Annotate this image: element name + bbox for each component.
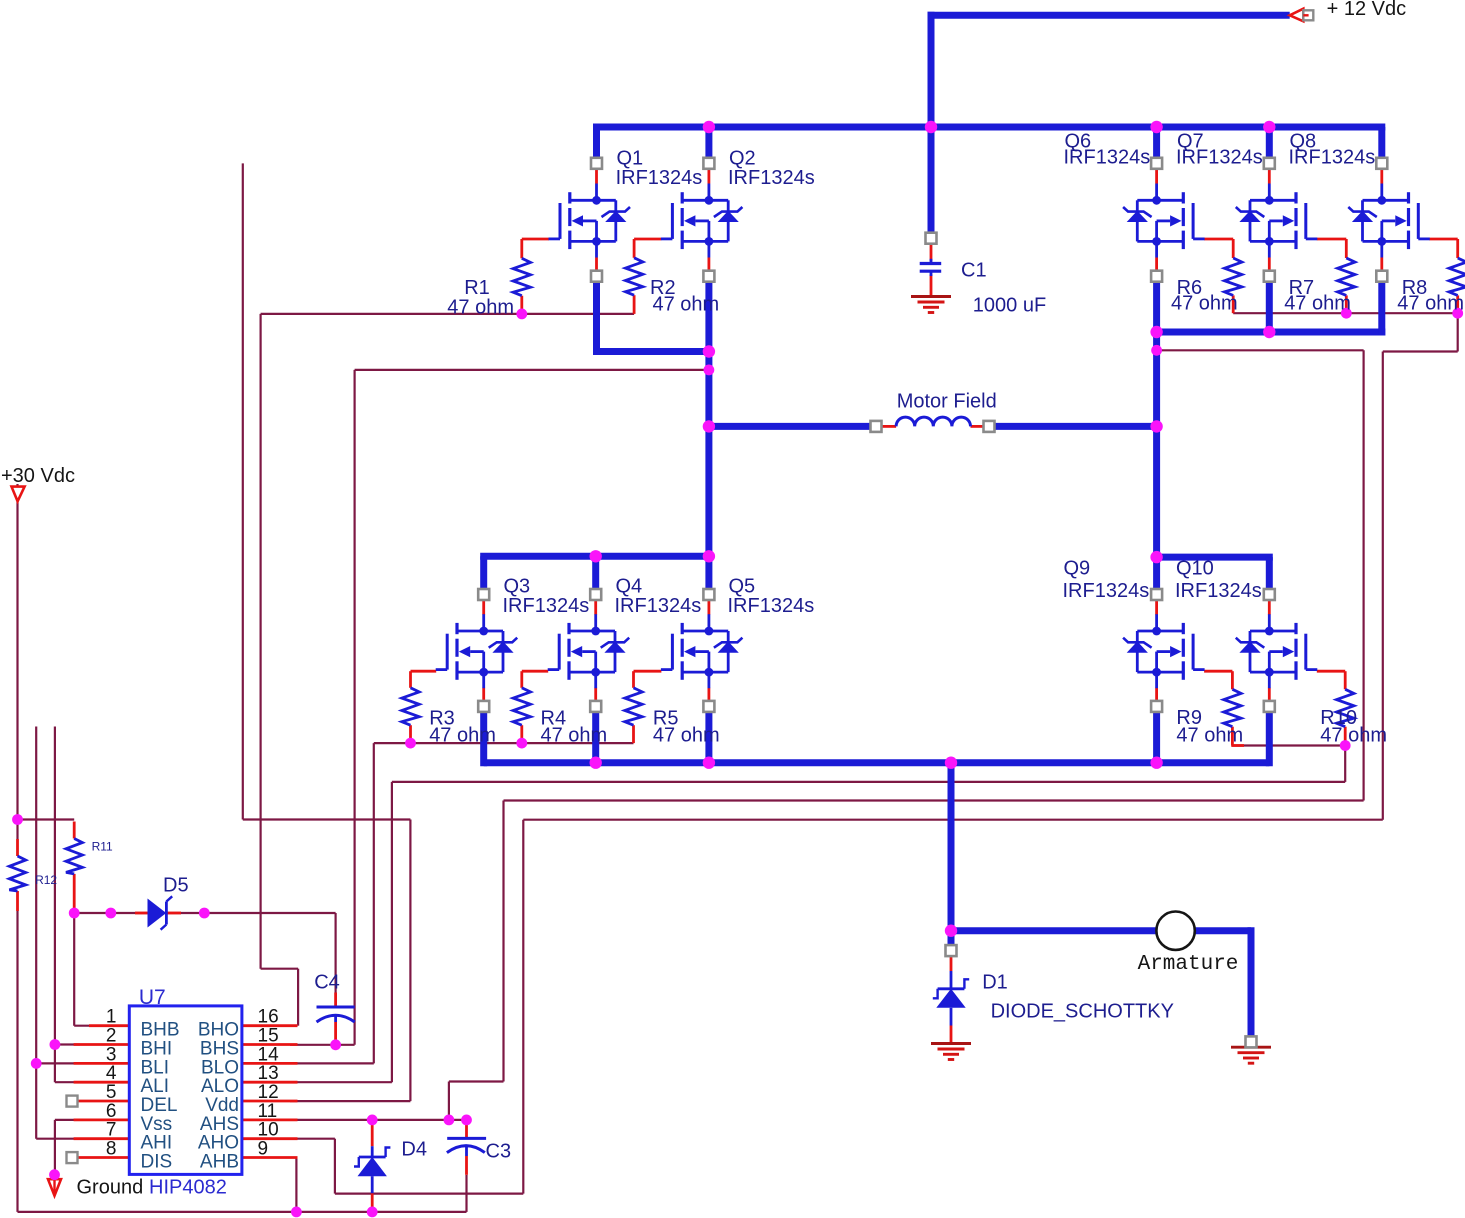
- wire net Vss pin6 to ground: [55, 1119, 80, 1121]
- resistor R9: [1224, 689, 1241, 726]
- svg-text:47 ohm: 47 ohm: [653, 294, 720, 316]
- svg-text:47 ohm: 47 ohm: [447, 297, 514, 319]
- lead Q1 gate to R1: [522, 238, 549, 241]
- svg-text:+30 Vdc: +30 Vdc: [1, 465, 75, 487]
- inductor Motor Field: [896, 417, 970, 426]
- wire high-side drain rail: [593, 124, 1385, 131]
- transistor Q1: [595, 184, 598, 201]
- wire net BHI pin2 pin4 input stub: [54, 727, 56, 1083]
- lead drains bottom bank: [482, 600, 485, 615]
- svg-text:IRF1324s: IRF1324s: [1176, 147, 1263, 169]
- svg-text:47 ohm: 47 ohm: [1284, 293, 1351, 315]
- lead C3 top: [465, 1120, 468, 1139]
- svg-text:IRF1324s: IRF1324s: [1175, 580, 1262, 602]
- svg-text:C1: C1: [961, 260, 987, 282]
- resistor R4: [513, 688, 530, 725]
- wire net BHS pin15 to left bridge midpoint: [355, 369, 709, 371]
- resistor R12: [9, 856, 25, 891]
- ground C1: [911, 295, 951, 298]
- wire +12Vdc feed down to C1: [928, 12, 935, 233]
- lead C1 bottom to ground: [930, 275, 933, 297]
- wire armature to ground: [1248, 927, 1255, 1036]
- lead R10 bottom: [1344, 727, 1347, 746]
- svg-text:47 ohm: 47 ohm: [541, 725, 608, 747]
- lead Q7 gate to R7: [1317, 238, 1347, 241]
- capacitor C1: [920, 262, 942, 265]
- lead D4 top: [371, 1120, 374, 1146]
- wire left bridge midpoint vertical: [705, 282, 712, 589]
- svg-text:Q10: Q10: [1176, 558, 1214, 580]
- svg-text:IRF1324s: IRF1324s: [728, 167, 815, 189]
- wire net BHB D5 cathode line to pin1 and C4: [74, 912, 335, 914]
- svg-text:8: 8: [106, 1139, 117, 1160]
- svg-text:Motor Field: Motor Field: [897, 391, 997, 413]
- wire Q3 source stub: [480, 712, 487, 766]
- transistor Q7: [1268, 184, 1271, 201]
- lead R5 bottom: [632, 725, 635, 743]
- wire D1 branch stub: [948, 931, 955, 945]
- wire net BHO pin16 to R1 R2 gates: [261, 313, 634, 315]
- svg-text:47 ohm: 47 ohm: [1171, 293, 1238, 315]
- motor Armature: [1156, 912, 1194, 950]
- lead R11 bottom: [73, 874, 76, 913]
- wire motor armature branch down: [948, 763, 955, 935]
- lead R11 top: [73, 822, 76, 839]
- wire +30Vdc rail to R11 R12: [18, 818, 75, 820]
- lead C4 bottom: [334, 1022, 337, 1045]
- lead drains top bank: [595, 169, 598, 184]
- lead motor field right: [971, 425, 984, 428]
- U7 right pin leads 16-9: [242, 1024, 298, 1027]
- wire +12Vdc top rail: [928, 12, 1290, 19]
- wire net BLO pin14 to R3 R4 R5 gates: [374, 742, 634, 744]
- svg-text:Armature: Armature: [1138, 953, 1239, 976]
- wire Q5 source stub: [705, 712, 712, 763]
- lead R8 bottom: [1456, 295, 1459, 313]
- lead Q4 gate to R4: [522, 670, 548, 673]
- wire Q7 drain stub: [1266, 127, 1273, 158]
- lead Q3 gate to R3: [411, 670, 437, 673]
- capacitor C4: [317, 1006, 355, 1009]
- lead Q10 gate to R10: [1317, 670, 1345, 673]
- svg-text:IRF1324s: IRF1324s: [615, 595, 702, 617]
- lead Q6 gate to R6: [1204, 238, 1233, 241]
- transistor Q10: [1268, 614, 1271, 631]
- transistor Q2: [708, 184, 711, 201]
- diode D1 DIODE_SCHOTTKY: [950, 971, 953, 989]
- lead D1 top: [950, 956, 953, 971]
- svg-text:47 ohm: 47 ohm: [653, 725, 720, 747]
- transistor Q6: [1155, 184, 1158, 201]
- capacitor C3: [447, 1137, 486, 1140]
- pad DIS pin8: [67, 1152, 78, 1163]
- resistor R3: [402, 688, 419, 725]
- wire Q1 drain stub: [593, 127, 600, 158]
- lead R6 bottom: [1232, 295, 1235, 313]
- transistor Q9: [1155, 614, 1158, 631]
- svg-text:AHB: AHB: [200, 1152, 239, 1173]
- wire Q6-Q8 source rail: [1157, 329, 1386, 336]
- svg-text:47 ohm: 47 ohm: [1320, 725, 1387, 747]
- pad C1: [926, 233, 937, 244]
- diode D4: [371, 1146, 374, 1157]
- wire Q10 source stub: [1266, 712, 1273, 766]
- svg-text:D4: D4: [401, 1139, 427, 1161]
- transistor Q5: [708, 614, 711, 631]
- svg-text:+ 12 Vdc: + 12 Vdc: [1327, 0, 1407, 20]
- svg-text:IRF1324s: IRF1324s: [503, 595, 590, 617]
- wire Q8 drain stub: [1378, 127, 1385, 158]
- svg-text:C3: C3: [486, 1141, 512, 1163]
- lead R9 bottom: [1231, 727, 1234, 746]
- lead R1 bottom: [520, 296, 523, 314]
- diode D5: [148, 899, 167, 928]
- wire low-side source rail: [484, 759, 1270, 766]
- svg-text:Ground: Ground: [77, 1177, 144, 1199]
- wire Q6 drain stub: [1153, 127, 1160, 158]
- svg-text:R12: R12: [35, 873, 57, 887]
- lead sources top bank: [595, 258, 598, 271]
- wire net AHB bottom bus R12 pin9 D4 C3: [16, 484, 18, 839]
- svg-text:1000 uF: 1000 uF: [973, 295, 1046, 317]
- transistor Q3: [482, 614, 485, 631]
- wire right bridge midpoint vertical: [1153, 282, 1160, 589]
- lead motor field left: [882, 425, 897, 428]
- ground arrow Vss: [53, 1175, 55, 1192]
- terminal +12 Vdc: [1290, 9, 1304, 22]
- lead Q9 gate to R9: [1204, 670, 1232, 673]
- junction dots signal wires: [12, 814, 23, 825]
- lead R12 bottom: [16, 891, 19, 911]
- lead R4 bottom: [520, 725, 523, 743]
- svg-text:HIP4082: HIP4082: [149, 1177, 227, 1199]
- svg-text:D1: D1: [982, 972, 1008, 994]
- svg-text:IRF1324s: IRF1324s: [728, 595, 815, 617]
- svg-text:9: 9: [258, 1139, 269, 1160]
- svg-text:IRF1324s: IRF1324s: [1063, 580, 1150, 602]
- wire motor field left branch: [709, 423, 871, 430]
- wire armature horizontal: [951, 927, 1251, 934]
- wire net ALO pin13 to R9 R10 gates: [1232, 744, 1345, 746]
- wire lower-left drain rail: [480, 553, 709, 560]
- transistor Q4: [594, 614, 597, 631]
- resistor R11: [66, 839, 82, 874]
- wire Q9 source stub: [1153, 712, 1160, 763]
- pad D1: [946, 945, 957, 956]
- lead Q2 gate to R2: [634, 238, 661, 241]
- svg-text:IRF1324s: IRF1324s: [1289, 147, 1376, 169]
- svg-text:R11: R11: [92, 840, 113, 854]
- resistor R10: [1337, 689, 1354, 726]
- svg-text:DIODE_SCHOTTKY: DIODE_SCHOTTKY: [991, 1001, 1174, 1023]
- wire Q4 source stub: [592, 712, 599, 763]
- lead C1 top: [930, 244, 933, 261]
- terminal +30 Vdc: [12, 487, 25, 502]
- svg-text:DIS: DIS: [141, 1152, 173, 1173]
- transistor Q8: [1380, 184, 1383, 201]
- lead sources bottom bank: [482, 688, 485, 701]
- ground D1: [931, 1042, 971, 1045]
- lead R12 top: [16, 839, 19, 856]
- wire net BLI pin3 pin7 input stub: [35, 727, 37, 1139]
- svg-text:Q9: Q9: [1064, 558, 1091, 580]
- svg-text:IRF1324s: IRF1324s: [1064, 147, 1151, 169]
- svg-text:U7: U7: [139, 986, 166, 1009]
- wire Q8 source stub: [1378, 282, 1385, 336]
- wire lower-right drain branch to Q10: [1157, 554, 1273, 561]
- lead R2 bottom: [633, 295, 636, 314]
- lead D4 bottom: [371, 1193, 374, 1212]
- svg-text:47 ohm: 47 ohm: [1397, 293, 1464, 315]
- resistor R7: [1338, 258, 1355, 295]
- wire motor field right branch: [995, 423, 1157, 430]
- pads motor field: [871, 421, 882, 432]
- lead C3 bottom: [465, 1156, 468, 1175]
- svg-text:47 ohm: 47 ohm: [429, 725, 496, 747]
- pad DEL pin5: [67, 1096, 78, 1107]
- ground armature: [1231, 1046, 1271, 1049]
- svg-text:C4: C4: [314, 972, 340, 994]
- resistor R1: [513, 258, 530, 295]
- pin pads MOSFET terminals: [591, 158, 602, 169]
- wire Q2 drain stub: [705, 127, 712, 158]
- lead R3 bottom: [409, 725, 412, 743]
- U7 left pin leads 1-8: [89, 1024, 129, 1027]
- wire net Vdd pin12 stub: [242, 163, 244, 819]
- lead D1 bottom to ground: [950, 1026, 953, 1044]
- lead Q8 gate to R8: [1429, 238, 1457, 241]
- lead D5 cathode: [166, 912, 181, 915]
- wire net AHO pin10 to R6 R7 R8 gates: [1233, 312, 1458, 314]
- resistor R8: [1449, 258, 1465, 295]
- wire Q1 source to left midpoint: [593, 282, 600, 355]
- resistor R2: [625, 258, 642, 295]
- lead Q5 gate to R5: [634, 670, 662, 673]
- svg-text:47 ohm: 47 ohm: [1176, 725, 1243, 747]
- wire net AHS pin11 to right bridge midpoint with D4 C3 taps: [1157, 349, 1364, 351]
- pad armature ground: [1246, 1036, 1257, 1047]
- lead R7 bottom: [1345, 295, 1348, 313]
- resistor R5: [625, 688, 642, 725]
- lead C4 top: [334, 993, 337, 1006]
- svg-text:D5: D5: [163, 875, 189, 897]
- resistor R6: [1225, 258, 1242, 295]
- svg-text:IRF1324s: IRF1324s: [616, 167, 703, 189]
- junction dots power rails: [703, 121, 715, 133]
- IC U7 HIP4082 body: [129, 1006, 242, 1175]
- wire Q7 source stub: [1266, 282, 1273, 332]
- lead D5 anode: [135, 912, 148, 915]
